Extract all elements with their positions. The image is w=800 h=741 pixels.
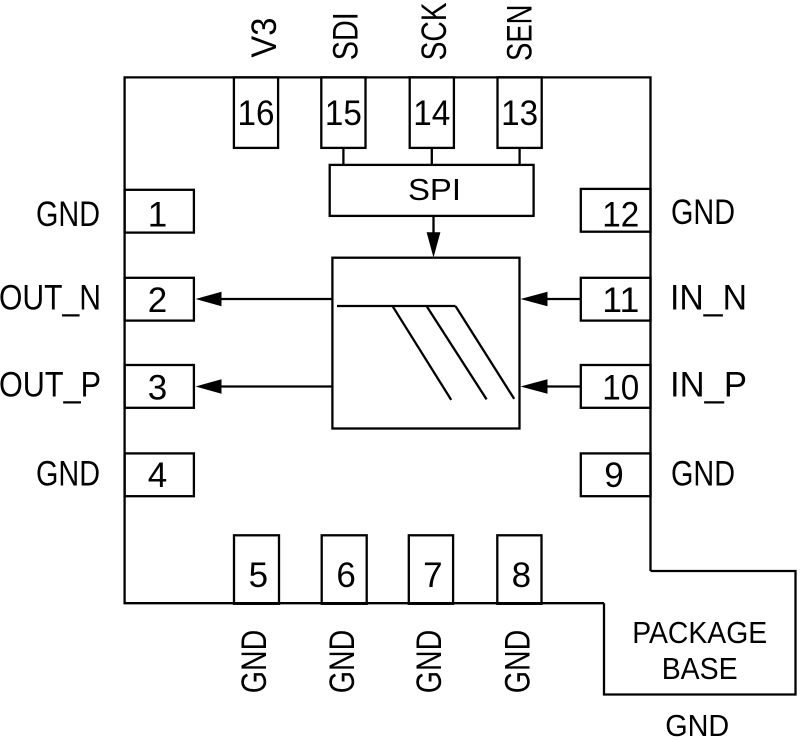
package base pad <box>604 571 796 695</box>
svg-text:PACKAGE: PACKAGE <box>632 615 767 650</box>
wire SPI to attenuator (arrow) <box>427 216 441 258</box>
attenuator symbol <box>337 306 514 400</box>
pin 13 <box>498 77 542 147</box>
svg-text:OUT_P: OUT_P <box>0 366 101 405</box>
svg-text:8: 8 <box>512 556 531 595</box>
svg-text:SCK: SCK <box>415 2 454 60</box>
svg-text:GND: GND <box>36 195 100 234</box>
package outline <box>125 77 651 603</box>
svg-text:4: 4 <box>148 456 167 495</box>
pin 5 <box>234 535 279 604</box>
svg-text:12: 12 <box>602 196 639 235</box>
pin 11 <box>581 278 651 321</box>
wire pin 13 to SPI <box>518 148 520 165</box>
pin 6 <box>322 535 367 604</box>
svg-text:3: 3 <box>148 369 167 408</box>
wire pin 10 to attenuator (arrow) <box>521 379 581 394</box>
pin 12 <box>581 189 651 235</box>
svg-text:10: 10 <box>602 369 639 408</box>
pin 2 <box>125 278 194 321</box>
pin 4 <box>125 453 194 496</box>
svg-text:13: 13 <box>501 94 538 133</box>
svg-text:9: 9 <box>604 456 623 495</box>
pin 14 <box>410 77 454 147</box>
attenuator block <box>332 258 519 429</box>
svg-text:11: 11 <box>602 281 639 320</box>
pin 1 <box>125 190 194 235</box>
pin 7 <box>409 535 453 604</box>
wire attenuator to pin 2 (arrow) <box>196 292 333 307</box>
svg-text:GND: GND <box>671 193 735 232</box>
svg-text:1: 1 <box>148 196 167 235</box>
svg-text:14: 14 <box>413 94 450 133</box>
svg-text:16: 16 <box>238 94 275 133</box>
pin 3 <box>125 365 194 408</box>
svg-text:GND: GND <box>410 630 449 694</box>
wire pin 14 to SPI <box>431 148 433 165</box>
svg-text:15: 15 <box>325 94 362 133</box>
svg-text:GND: GND <box>36 455 100 494</box>
svg-text:GND: GND <box>323 630 362 694</box>
svg-text:BASE: BASE <box>662 651 738 686</box>
svg-text:IN_P: IN_P <box>670 366 747 405</box>
svg-text:SDI: SDI <box>326 12 365 60</box>
pin 10 <box>581 365 651 408</box>
svg-text:SPI: SPI <box>408 172 461 207</box>
pin 15 <box>321 77 365 147</box>
svg-text:5: 5 <box>249 556 268 595</box>
pin 9 <box>581 453 651 496</box>
svg-text:GND: GND <box>671 455 735 494</box>
svg-text:2: 2 <box>148 281 167 320</box>
svg-text:GND: GND <box>235 630 274 694</box>
svg-text:IN_N: IN_N <box>670 278 747 317</box>
svg-text:OUT_N: OUT_N <box>0 278 101 317</box>
svg-text:7: 7 <box>423 556 442 595</box>
wire pin 11 to attenuator (arrow) <box>521 292 581 307</box>
SPI block <box>330 165 534 216</box>
svg-text:6: 6 <box>336 556 355 595</box>
pin 8 <box>497 535 541 604</box>
svg-text:GND: GND <box>498 630 537 694</box>
svg-text:V3: V3 <box>245 18 284 58</box>
wire attenuator to pin 3 (arrow) <box>196 379 333 394</box>
pin 16 <box>234 77 278 147</box>
svg-text:GND: GND <box>665 708 729 741</box>
wire pin 15 to SPI <box>342 148 344 165</box>
svg-text:SEN: SEN <box>501 5 540 62</box>
